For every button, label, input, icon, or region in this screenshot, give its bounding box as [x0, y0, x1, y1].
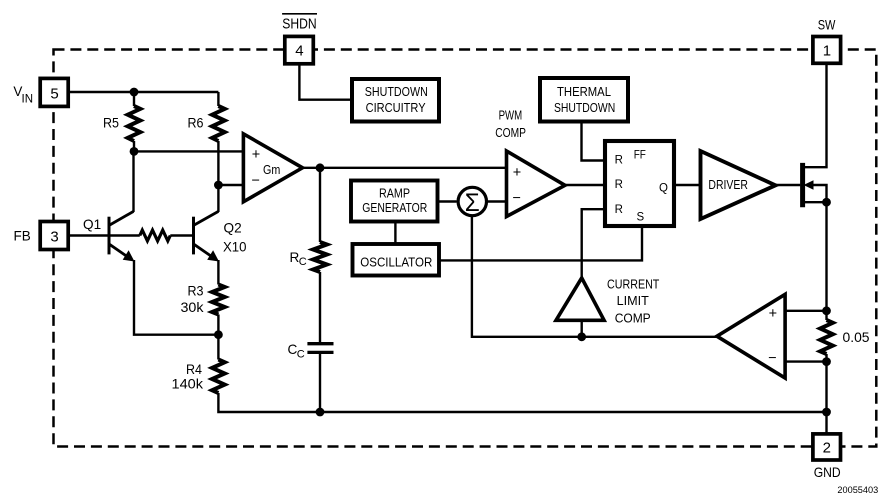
wire SHDN pin down to shutdown circuitry — [299, 64, 352, 100]
svg-text:CIRCUITRY: CIRCUITRY — [366, 101, 427, 115]
svg-text:FB: FB — [14, 229, 31, 244]
wire Q2 emitter down to R3 — [217, 260, 219, 285]
svg-text:3: 3 — [50, 229, 58, 246]
wire Gm output to PWM comp plus input — [303, 167, 507, 169]
wire FF third R input left and down to current limit comp — [582, 209, 605, 278]
svg-text:0.05: 0.05 — [843, 329, 870, 345]
svg-text:X10: X10 — [223, 240, 247, 255]
node junction VIN rail at R5 — [130, 88, 139, 97]
wire R5 bottom to node — [133, 141, 135, 151]
svg-text:COMP: COMP — [615, 312, 651, 326]
svg-text:R: R — [615, 154, 623, 166]
svg-text:CURRENT: CURRENT — [607, 278, 660, 292]
svg-text:SHDN: SHDN — [282, 17, 316, 33]
flip-flop FF — [605, 141, 674, 226]
block shutdown circuitry — [352, 79, 439, 122]
transistor M1 power MOSFET — [803, 163, 827, 207]
node junction sense resistor bottom — [822, 357, 831, 366]
svg-text:RAMP: RAMP — [379, 186, 410, 200]
comparator PWM comp — [495, 108, 565, 216]
op-amp current sense — [717, 294, 785, 378]
svg-text:−: − — [252, 173, 260, 189]
wire compensation branch down to RC — [319, 168, 321, 242]
resistor R4 140k — [172, 360, 225, 394]
svg-text:R: R — [615, 179, 623, 191]
svg-text:20055403: 20055403 — [837, 485, 878, 495]
svg-text:Σ: Σ — [465, 189, 480, 217]
block oscillator — [353, 244, 440, 276]
wire CC bottom to ground rail — [319, 352, 321, 412]
wire RC bottom to CC top — [319, 272, 321, 344]
svg-text:Q2: Q2 — [224, 220, 242, 235]
wire R5 top stub — [133, 92, 135, 106]
node junction R6 bottom — [214, 181, 223, 190]
wire Q1 collector up to feedback node — [132, 151, 134, 212]
wire R6 bottom down through plus-line crossing to minus node — [217, 141, 219, 185]
node junction R3/R4 divider — [214, 330, 223, 339]
svg-text:COMP: COMP — [495, 126, 526, 140]
node junction compensation at ground rail — [316, 408, 325, 417]
wire ramp generator to oscillator — [394, 222, 396, 245]
wire oscillator output to FF S input — [439, 226, 642, 260]
pin 5 VIN — [13, 78, 68, 106]
summing junction — [458, 187, 486, 217]
svg-text:Q1: Q1 — [83, 217, 101, 232]
block ramp generator — [351, 181, 438, 222]
svg-text:−: − — [513, 191, 521, 207]
svg-text:2: 2 — [823, 440, 831, 457]
node junction MOSFET source — [822, 198, 831, 207]
svg-text:IN: IN — [22, 93, 34, 105]
node junction sense line — [577, 332, 586, 341]
node junction Gm output compensation tap — [316, 163, 325, 172]
svg-text:+: + — [513, 165, 521, 181]
transistor Q1 — [83, 211, 135, 261]
svg-text:Gm: Gm — [263, 162, 280, 177]
node junction R5 bottom feedback — [130, 147, 139, 156]
svg-text:Q: Q — [659, 182, 668, 194]
resistor RC — [290, 242, 327, 272]
wire minus node to Gm minus input — [218, 184, 243, 186]
wire VIN pin to R5 and R6 tops — [68, 91, 218, 93]
part number 20055403 — [837, 485, 878, 495]
svg-text:R5: R5 — [103, 116, 119, 131]
svg-text:1: 1 — [823, 43, 831, 60]
resistor R5 — [103, 106, 140, 141]
wire node to R4 — [217, 335, 219, 360]
svg-text:4: 4 — [295, 43, 303, 60]
comparator current limit — [556, 278, 660, 326]
IC boundary dashed border — [54, 50, 877, 447]
node junction ground rail right — [822, 408, 831, 417]
block thermal shutdown — [540, 78, 628, 122]
pin 4 SHDN — [282, 14, 317, 64]
svg-text:+: + — [252, 147, 260, 163]
svg-text:SHUTDOWN: SHUTDOWN — [554, 101, 615, 115]
wire Q2 collector up to minus node — [217, 185, 219, 212]
wire driver to MOSFET gate — [776, 184, 801, 186]
wire node under R5 to Gm plus input — [134, 150, 243, 152]
wire R3 bottom to node — [217, 315, 219, 335]
svg-text:SHUTDOWN: SHUTDOWN — [365, 85, 428, 99]
pin 1 SW — [813, 18, 841, 64]
node junction sense resistor top — [822, 306, 831, 315]
svg-text:R3: R3 — [188, 283, 204, 298]
wire FB pin to Q1 base — [68, 234, 109, 236]
wire summer down and right to current sense line — [472, 216, 717, 337]
svg-text:−: − — [768, 351, 776, 367]
svg-text:+: + — [769, 306, 777, 322]
resistor R3 30k — [181, 283, 225, 315]
resistor R6 — [188, 106, 225, 141]
wire sense amp plus input — [785, 310, 826, 312]
svg-text:R4: R4 — [186, 362, 202, 377]
wire sense resistor bottom to ground rail — [825, 354, 827, 434]
svg-text:GENERATOR: GENERATOR — [362, 201, 427, 215]
wire FF Q output to driver — [674, 184, 701, 186]
wire sense amp minus input — [785, 360, 826, 362]
wire MOSFET source down to sense resistor — [825, 202, 827, 320]
pin 3 FB — [14, 222, 69, 250]
svg-text:140k: 140k — [172, 377, 204, 392]
wire SW pin down to MOSFET drain — [804, 64, 827, 167]
svg-text:30k: 30k — [181, 300, 204, 315]
svg-text:5: 5 — [50, 86, 58, 103]
wire summer output to PWM comp minus input — [488, 200, 507, 202]
svg-text:DRIVER: DRIVER — [708, 178, 748, 192]
op-amp Gm error amplifier — [243, 134, 302, 202]
wire current limit comp base to sense line — [581, 320, 583, 337]
svg-text:SW: SW — [818, 18, 836, 33]
svg-text:THERMAL: THERMAL — [557, 85, 611, 99]
wire ramp generator output to summer — [438, 200, 457, 202]
svg-text:LIMIT: LIMIT — [617, 294, 650, 308]
svg-text:R: R — [615, 204, 623, 216]
pin 2 GND — [813, 434, 841, 480]
transistor Q2 X10 — [194, 211, 247, 261]
svg-text:GND: GND — [814, 464, 841, 480]
wire R4 bottom to ground rail — [218, 393, 826, 412]
svg-text:S: S — [637, 211, 645, 223]
capacitor CC — [288, 342, 334, 360]
wire Q1 emitter down and right to R3/R4 node — [134, 260, 218, 335]
resistor 0.05 current sense — [820, 320, 870, 354]
wire PWM comp output to FF middle R input — [565, 184, 605, 186]
svg-text:FF: FF — [634, 150, 646, 162]
svg-text:C: C — [299, 256, 307, 268]
svg-text:R6: R6 — [188, 116, 204, 131]
resistor between Q1 and Q2 bases — [109, 230, 194, 241]
svg-text:C: C — [297, 348, 305, 360]
amplifier driver — [701, 151, 776, 219]
wire thermal shutdown down to FF top R input — [582, 122, 606, 161]
svg-text:OSCILLATOR: OSCILLATOR — [360, 256, 432, 270]
wire R6 top stub — [217, 92, 219, 106]
svg-text:PWM: PWM — [499, 108, 523, 122]
